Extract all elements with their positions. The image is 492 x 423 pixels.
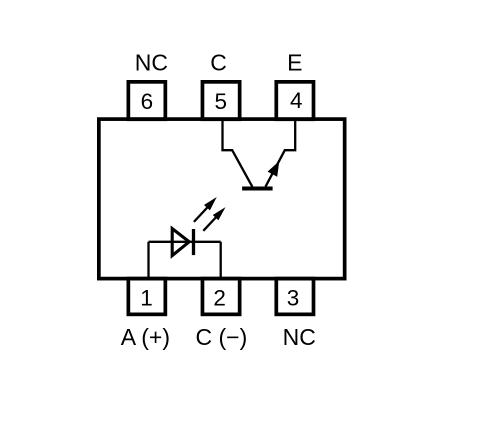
- svg-text:E: E: [287, 50, 302, 76]
- LED D1 triangle (anode): [172, 229, 189, 256]
- svg-text:5: 5: [215, 89, 228, 114]
- wire emitter from pin 4 to phototransistor: [266, 119, 296, 187]
- svg-text:2: 2: [213, 285, 226, 310]
- pin 5 box: [202, 82, 239, 119]
- LED D1 cathode bar: [192, 229, 195, 255]
- pin 3 box: [276, 279, 313, 315]
- pin 6 box: [128, 82, 165, 119]
- svg-text:C: C: [210, 50, 227, 76]
- phototransistor Q1 emitter arrow: [268, 162, 278, 176]
- pin 4 box: [276, 82, 313, 119]
- pin 2 box: [202, 279, 239, 315]
- svg-text:4: 4: [290, 88, 303, 113]
- svg-text:NC: NC: [283, 324, 316, 350]
- LED D1 horizontal wire: [149, 241, 221, 243]
- svg-text:3: 3: [287, 285, 300, 310]
- wire collector from pin 5 to phototransistor: [223, 119, 253, 187]
- LED light emission arrow 1: [194, 197, 217, 222]
- package body outline U1: [99, 119, 345, 279]
- svg-text:A (+): A (+): [121, 324, 170, 350]
- pin 1 box: [128, 279, 165, 315]
- svg-text:6: 6: [141, 89, 154, 114]
- phototransistor Q1 base bar: [242, 187, 273, 191]
- LED D1 anode wire to pin 1: [147, 242, 149, 278]
- svg-text:1: 1: [140, 285, 153, 310]
- svg-text:C (−): C (−): [196, 324, 248, 350]
- LED light emission arrow 2: [203, 207, 225, 231]
- svg-text:NC: NC: [135, 50, 168, 76]
- LED D1 cathode wire to pin 2: [220, 242, 222, 278]
